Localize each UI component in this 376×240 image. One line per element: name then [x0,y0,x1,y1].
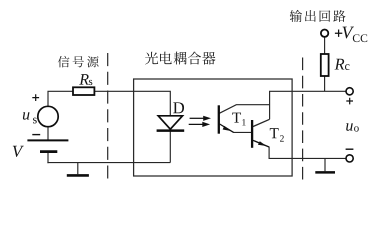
wire: collector riser and top output line to + terminal [270,91,346,119]
output + terminal circle [346,88,353,95]
optocoupler package box [134,79,293,176]
ground (right) [315,171,335,174]
label us [23,112,30,119]
label: output loop 输出回路 [290,10,346,22]
phototransistor T1 base bar [218,105,220,133]
LED diode D triangle [158,116,182,129]
label D [173,102,184,113]
minus sign (output) [346,148,354,150]
LED diode D cathode bar [157,129,185,132]
battery V long plate [27,139,68,141]
wire: battery to bottom rail [47,152,49,163]
label +Vcc [335,30,342,37]
wire: diode cathode down to bottom rail [169,131,171,163]
plus sign (source) [32,94,39,101]
transistor T2 base bar [251,120,253,148]
wire: T1 emitter link to T2 base [233,131,251,133]
T2 collector [253,119,270,126]
wire: T1 collector to riser [219,105,269,114]
wire: left ground stem [77,163,79,175]
T2 emitter with arrow [253,140,269,147]
wire: bottom rail (battery to diode) [47,162,170,164]
minus sign (source) [32,134,40,136]
dashed boundary line (signal source | photocoupler) [107,53,109,179]
light arrow 1 [190,117,206,119]
output - terminal circle [346,155,353,162]
+Vcc terminal circle [321,30,328,37]
voltage source us circle [38,106,58,126]
wire: +Vcc terminal to Rc [324,37,326,54]
wire: source bottom to battery [47,126,49,139]
label T2 [270,128,279,138]
battery V short plate [40,150,57,153]
label: photocoupler 光电耦合器 [145,52,215,65]
label Rc [335,59,345,70]
wire: Rc to output node [324,76,326,91]
resistor Rc [321,54,329,76]
resistor Rs [73,87,94,95]
wire: Rs to diode anode corner, down to diode [94,91,170,115]
wire: right ground stem [324,158,326,171]
label T1 [232,113,241,123]
dashed boundary line (photocoupler | output loop) [302,58,304,180]
wire: T2 emitter down and bottom output line to - terminal [269,147,346,159]
plus sign (output) [346,98,353,105]
wire: source top to Rs [48,91,73,107]
label uo [346,123,353,130]
label: signal source 信号源 [58,56,99,67]
light arrow 2 [189,123,205,125]
label V [13,146,24,157]
ground (left) [67,174,89,177]
label Rs [79,74,89,84]
T1 emitter with arrow [220,124,234,132]
